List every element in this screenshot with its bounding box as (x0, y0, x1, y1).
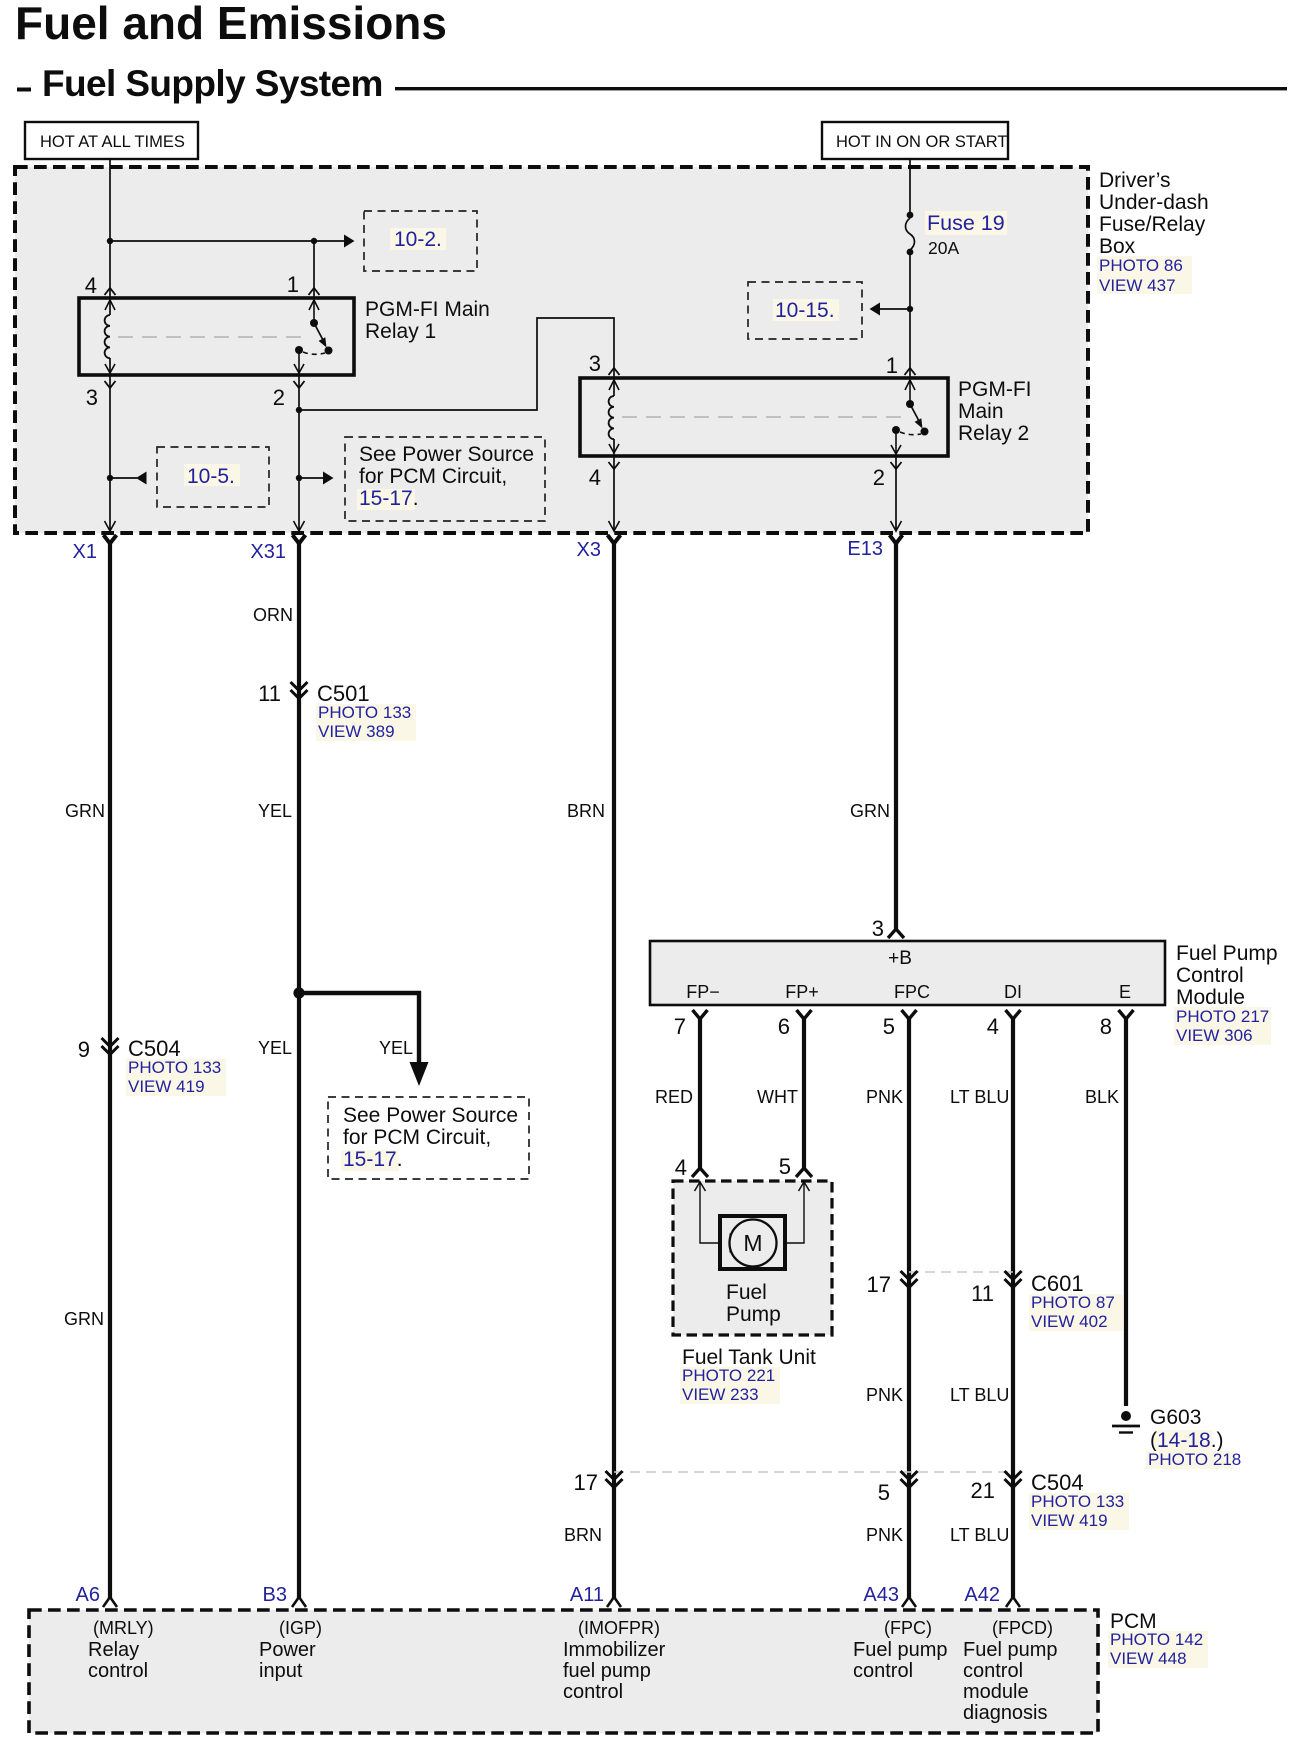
svg-text:E13: E13 (847, 538, 883, 560)
svg-text:X3: X3 (577, 539, 601, 561)
label: G603 (14-18.) PHOTO 218 (1146, 1406, 1241, 1469)
svg-text:(FPCD): (FPCD) (992, 1618, 1053, 1638)
svg-text:5: 5 (883, 1014, 895, 1039)
wire: FPC trunk (PNK) (907, 1018, 911, 1598)
svg-text:(14-18.): (14-18.) (1150, 1429, 1224, 1452)
svg-text:4: 4 (987, 1014, 999, 1039)
svg-text:4: 4 (675, 1155, 687, 1180)
wire color label BLK (1085, 1087, 1119, 1107)
wire: FP- to fuel pump pin 4 (RED) (698, 1018, 702, 1168)
pin 3 label (module +B) (872, 916, 884, 941)
reference box: See Power Source for PCM Circuit 15-17 (upper) (345, 437, 545, 521)
PCM dashed box (29, 1610, 1098, 1733)
wire color label WHT (757, 1087, 798, 1107)
coil: relay 2 coil (609, 396, 614, 439)
wire color label PNK (FPC lower) (866, 1525, 903, 1545)
svg-text:BRN: BRN (567, 801, 605, 821)
svg-text:GRN: GRN (64, 1309, 104, 1329)
svg-text:for PCM Circuit,: for PCM Circuit, (359, 465, 507, 488)
svg-text:5: 5 (878, 1480, 890, 1505)
svg-text:PNK: PNK (866, 1087, 903, 1107)
fuel pump pin 5 entry terminal (796, 1168, 812, 1177)
svg-text:A43: A43 (863, 1584, 899, 1606)
relay: PGM-FI Main Relay 2 box (580, 378, 948, 456)
pin 1 entry chevron (309, 288, 320, 295)
svg-text:VIEW 437: VIEW 437 (1099, 276, 1176, 295)
wire: hot-at-all-times feed (X1 column, inside fuse box) (109, 159, 111, 531)
svg-text:Fuse 19: Fuse 19 (927, 211, 1005, 235)
svg-text:3: 3 (872, 916, 884, 941)
svg-text:9: 9 (78, 1037, 90, 1062)
wire: relay1 pin 1 drop (313, 241, 315, 298)
pin 4 label (relay 2) (589, 465, 601, 490)
svg-text:control: control (563, 1681, 623, 1703)
svg-text:DI: DI (1004, 982, 1022, 1002)
label: +B (888, 948, 912, 969)
wire color label LT BLU (950, 1087, 1009, 1107)
svg-text:BLK: BLK (1085, 1087, 1119, 1107)
connector C504 pin 9 (78, 1036, 226, 1096)
wire: X31 branch with arrow into see-power box (299, 993, 429, 1086)
pin 3 label (relay 1) (86, 385, 98, 410)
svg-text:B3: B3 (263, 1584, 287, 1606)
PCM entry terminal A42 (1006, 1597, 1020, 1607)
connector C501 pin 11 (258, 681, 416, 741)
module pin name FP- (686, 982, 720, 1002)
svg-text:VIEW 419: VIEW 419 (1031, 1511, 1108, 1530)
connector C601 tie line (909, 1271, 1013, 1273)
PCM pin function (FPC) Fuel pump control (853, 1618, 948, 1682)
connector C601 pin 17 (867, 1271, 918, 1297)
PCM pin function (FPCD) Fuel pump control module diagnosis (963, 1618, 1058, 1724)
relay1 coil pin-3 exit arrow (inside box) (105, 364, 115, 373)
svg-text:11: 11 (258, 681, 281, 706)
svg-text:Relay 2: Relay 2 (958, 422, 1029, 445)
svg-text:Fuel pump: Fuel pump (853, 1639, 948, 1661)
node: junction at top of X1 feed (107, 238, 113, 244)
exit arrow X31 (294, 521, 305, 531)
pin 2 exit chevron below relay2 (891, 462, 902, 469)
module exit terminal pin 8 (1100, 1010, 1134, 1039)
svg-text:(IGP): (IGP) (279, 1618, 322, 1638)
wire: fuse 19 to relay 2 pin 1 (909, 252, 911, 378)
svg-text:FPC: FPC (894, 982, 930, 1002)
connector C504 pin 21 (DI) (971, 1471, 1022, 1503)
wire: FP+ to fuel pump pin 5 (WHT) (802, 1018, 806, 1168)
PCM entry terminal B3 (292, 1597, 306, 1607)
wire color label GRN (X1) (65, 801, 105, 821)
exit arrow E13 (891, 521, 902, 531)
label: Driver's Under-dash Fuse/Relay Box (1097, 169, 1209, 295)
svg-text:E: E (1119, 982, 1131, 1002)
label: PCM (1108, 1610, 1208, 1668)
svg-text:Under-dash: Under-dash (1099, 191, 1209, 214)
svg-text:15-17.: 15-17. (343, 1148, 403, 1171)
svg-text:GRN: GRN (65, 801, 105, 821)
wire color label BRN (X3) (567, 801, 605, 821)
label: C601 (1029, 1271, 1123, 1331)
svg-text:See Power Source: See Power Source (343, 1104, 518, 1127)
svg-text:PGM-FI: PGM-FI (958, 378, 1032, 401)
svg-text:fuel pump: fuel pump (563, 1660, 651, 1682)
label: Fuel Pump Control Module (1174, 942, 1278, 1045)
node: junction above relay1 pin 1 (311, 238, 317, 244)
svg-text:A42: A42 (964, 1584, 1000, 1606)
svg-text:GRN: GRN (850, 801, 890, 821)
wire: arrow to 10-5 reference (110, 472, 147, 485)
wire color label YEL (X31 lower) (258, 1038, 292, 1058)
node: X1 10-5 branch junction (107, 475, 113, 481)
svg-text:diagnosis: diagnosis (963, 1702, 1048, 1724)
svg-text:1: 1 (287, 272, 299, 297)
svg-text:7: 7 (674, 1014, 686, 1039)
svg-text:VIEW 448: VIEW 448 (1110, 1649, 1187, 1668)
svg-text:+B: +B (888, 948, 912, 969)
pin 3 exit chevron below relay1 (105, 381, 116, 388)
label: Fuel Pump (726, 1281, 781, 1326)
svg-text:Fuel Supply System: Fuel Supply System (42, 63, 383, 104)
svg-text:4: 4 (589, 465, 601, 490)
svg-text:control: control (88, 1660, 148, 1682)
wire: arrow to See Power Source box (299, 472, 334, 485)
svg-text:Box: Box (1099, 235, 1136, 258)
exit arrow X1 (105, 521, 116, 531)
fuel pump pin 5 inner arrow (799, 1182, 810, 1191)
label: PGM-FI Main Relay 2 (958, 378, 1032, 445)
connector E13 (fork terminal) (847, 535, 902, 560)
svg-text:6: 6 (778, 1014, 790, 1039)
svg-text:VIEW 419: VIEW 419 (128, 1077, 205, 1096)
svg-text:PNK: PNK (866, 1385, 903, 1405)
wire color label BRN (X3 lower) (564, 1525, 602, 1545)
svg-text:Immobilizer: Immobilizer (563, 1639, 666, 1661)
wire: E13 trunk (GRN) (894, 543, 898, 929)
wire: relay1 pin2 to relay2 pin3 (up and over) (299, 318, 614, 410)
svg-text:X1: X1 (73, 541, 97, 563)
svg-text:8: 8 (1100, 1014, 1112, 1039)
svg-text:YEL: YEL (258, 801, 292, 821)
wire: pump feed left (thin) (700, 1183, 720, 1243)
coil: relay 1 coil (105, 315, 110, 358)
PCM pin label B3 (263, 1584, 287, 1606)
svg-text:A6: A6 (76, 1584, 100, 1606)
relay1 coil pin-4 entry arrow (inside box) (105, 300, 115, 310)
ground G603 (1112, 1411, 1140, 1433)
svg-text:VIEW 402: VIEW 402 (1031, 1312, 1108, 1331)
connector C504 pin 5 (FPC) (878, 1471, 918, 1505)
reference box: See Power Source for PCM Circuit 15-17 (middle) (328, 1097, 529, 1179)
svg-text:BRN: BRN (564, 1525, 602, 1545)
motor: fuel pump motor (720, 1216, 785, 1269)
svg-text:VIEW 389: VIEW 389 (318, 722, 395, 741)
svg-text:4: 4 (85, 273, 97, 298)
svg-text:PHOTO 221: PHOTO 221 (682, 1366, 775, 1385)
svg-text:A11: A11 (570, 1584, 604, 1606)
pin 3 label (relay 2) (589, 351, 601, 376)
svg-text:RED: RED (655, 1087, 693, 1107)
wire color label GRN (X1 lower) (64, 1309, 104, 1329)
Fuel Tank Unit dashed box (673, 1181, 832, 1335)
module pin name DI (1004, 982, 1022, 1002)
relay2 coil pin-4 exit arrow (609, 444, 619, 453)
svg-text:Fuse/Relay: Fuse/Relay (1099, 213, 1206, 236)
node: 10-15 branch junction (907, 306, 913, 312)
svg-text:PHOTO 217: PHOTO 217 (1176, 1007, 1269, 1026)
module pin name FPC (894, 982, 930, 1002)
wire color label YEL (branch) (379, 1038, 413, 1058)
label: Fuel Tank Unit (680, 1346, 816, 1404)
svg-text:5: 5 (779, 1154, 791, 1179)
PCM pin label A11 (570, 1584, 604, 1606)
module exit terminal pin 4 (987, 1010, 1021, 1039)
reference box 10-5 (157, 447, 269, 507)
relay2 coil-to-switch dashed link (622, 416, 902, 418)
PCM pin function (IMOFPR) Immobilizer fuel pump control (563, 1618, 666, 1703)
pin 4 entry chevron (105, 288, 116, 295)
switch: relay 1 contact (294, 300, 333, 373)
wire: X31 trunk (ORN/YEL) (297, 543, 301, 1598)
wire: relay1 pin2 down to X31 exit (298, 373, 300, 531)
label: Fuse 19 20A (925, 211, 1007, 258)
connector X3 (fork terminal) (577, 535, 621, 561)
svg-text:Control: Control (1176, 964, 1244, 987)
wire color label PNK (866, 1087, 903, 1107)
svg-text:Fuel and Emissions: Fuel and Emissions (15, 0, 447, 49)
label: PGM-FI Main Relay 1 (365, 298, 490, 343)
svg-text:PHOTO 218: PHOTO 218 (1148, 1450, 1241, 1469)
svg-text:3: 3 (589, 351, 601, 376)
svg-text:for PCM Circuit,: for PCM Circuit, (343, 1126, 491, 1149)
wire: relay2 pin4 down to X3 exit (613, 378, 615, 531)
svg-text:YEL: YEL (379, 1038, 413, 1058)
wire: horizontal to relay 1 pin 1 (110, 240, 314, 242)
svg-text:LT BLU: LT BLU (950, 1525, 1009, 1545)
svg-text:PHOTO 133: PHOTO 133 (1031, 1492, 1124, 1511)
HOT AT ALL TIMES box (25, 122, 198, 159)
svg-text:module: module (963, 1681, 1029, 1703)
svg-text:2: 2 (873, 465, 885, 490)
relay: PGM-FI Main Relay 1 box (79, 298, 354, 375)
wire: arrow to 10-2 reference (314, 235, 355, 248)
svg-text:10-15.: 10-15. (775, 299, 835, 322)
title: Fuel and Emissions (15, 0, 447, 49)
svg-text:15-17.: 15-17. (359, 487, 419, 510)
node: X31 see-power branch junction (296, 475, 302, 481)
subtitle: Fuel Supply System (17, 63, 383, 104)
svg-text:Relay: Relay (88, 1639, 139, 1661)
svg-text:PHOTO 87: PHOTO 87 (1031, 1293, 1115, 1312)
module exit terminal pin 5 (883, 1010, 917, 1039)
PCM pin function (IGP) Power input (259, 1618, 322, 1682)
svg-text:G603: G603 (1150, 1406, 1201, 1429)
svg-text:3: 3 (86, 385, 98, 410)
svg-text:17: 17 (867, 1272, 891, 1297)
reference box 10-2 (364, 211, 477, 271)
svg-text:Pump: Pump (726, 1303, 781, 1326)
svg-text:FP−: FP− (686, 982, 720, 1002)
exit arrow X3 (609, 521, 620, 531)
relay1 coil-to-switch dashed link (118, 336, 306, 338)
wire: X3 trunk (BRN) (612, 543, 616, 1598)
pin 4 label (fuel tank unit) (675, 1155, 687, 1180)
PCM pin function (MRLY) Relay control (88, 1618, 154, 1682)
svg-text:ORN: ORN (253, 605, 293, 625)
svg-text:11: 11 (971, 1281, 994, 1306)
wire color label RED (655, 1087, 693, 1107)
wire color label ORN (253, 605, 293, 625)
wire color label LT BLU (below C601) (950, 1385, 1009, 1405)
pin 2 label (relay 2) (873, 465, 885, 490)
pin 4 exit chevron below relay2 (609, 462, 620, 469)
svg-text:21: 21 (971, 1478, 995, 1503)
svg-text:(MRLY): (MRLY) (93, 1618, 154, 1638)
svg-text:Relay 1: Relay 1 (365, 320, 436, 343)
pin 2 exit chevron below relay1 (294, 381, 305, 388)
switch: relay 2 contact (891, 380, 929, 454)
svg-text:Fuel pump: Fuel pump (963, 1639, 1058, 1661)
connector X31 (fork terminal) (250, 535, 305, 563)
svg-text:X31: X31 (250, 541, 286, 563)
module pin name E (1119, 982, 1131, 1002)
wire: E trunk to ground (BLK) (1124, 1018, 1128, 1406)
wire: hot-in-on-or-start feed down to fuse 19 (909, 159, 911, 216)
HOT IN ON OR START box (822, 122, 1008, 159)
wire color label YEL (X31) (258, 801, 292, 821)
connector C504 tie line (614, 1471, 1013, 1473)
header rule (395, 87, 1287, 90)
svg-text:LT BLU: LT BLU (950, 1385, 1009, 1405)
pin 5 label (fuel tank unit) (779, 1154, 791, 1179)
PCM pin label A6 (76, 1584, 100, 1606)
pin 4 label (relay 1) (85, 273, 97, 298)
svg-text:10-2.: 10-2. (394, 228, 442, 251)
pin 1 entry chevron (relay 2) (905, 368, 916, 375)
PCM pin label A42 (964, 1584, 1000, 1606)
fuel pump pin 4 entry terminal (692, 1168, 708, 1177)
connector C601 pin 11 (971, 1271, 1021, 1306)
wire color label PNK (below C601) (866, 1385, 903, 1405)
Fuel Pump Control Module box (650, 941, 1165, 1005)
svg-text:PHOTO 86: PHOTO 86 (1099, 256, 1183, 275)
svg-text:PHOTO 133: PHOTO 133 (128, 1058, 221, 1077)
node: X31 branch to PCM power (293, 987, 304, 998)
svg-text:(IMOFPR): (IMOFPR) (578, 1618, 660, 1638)
PCM entry terminal A6 (103, 1597, 117, 1607)
svg-text:M: M (743, 1230, 762, 1256)
svg-text:YEL: YEL (258, 1038, 292, 1058)
svg-text:20A: 20A (928, 238, 959, 258)
svg-text:VIEW 306: VIEW 306 (1176, 1026, 1253, 1045)
svg-text:HOT IN ON OR START: HOT IN ON OR START (836, 133, 1007, 151)
svg-text:2: 2 (273, 385, 285, 410)
pin 2 label (relay 1) (273, 385, 285, 410)
svg-text:PGM-FI Main: PGM-FI Main (365, 298, 490, 321)
pin 1 label (relay 1) (287, 272, 299, 297)
svg-text:HOT AT ALL TIMES: HOT AT ALL TIMES (40, 133, 185, 151)
svg-text:Driver’s: Driver’s (1099, 169, 1171, 192)
svg-text:17: 17 (574, 1470, 598, 1495)
wire: relay2 pin2 down to E13 exit (895, 454, 897, 531)
wire: pump feed right (thin) (785, 1183, 804, 1243)
svg-text:Fuel: Fuel (726, 1281, 767, 1304)
label: C504 (1029, 1470, 1129, 1530)
wire color label LT BLU (DI lower) (950, 1525, 1009, 1545)
svg-text:1: 1 (886, 353, 898, 378)
svg-text:control: control (853, 1660, 913, 1682)
svg-text:control: control (963, 1660, 1023, 1682)
reference box 10-15 (748, 282, 862, 339)
fuse F19 (906, 212, 915, 256)
PCM entry terminal A43 (902, 1597, 916, 1607)
svg-text:VIEW 233: VIEW 233 (682, 1385, 759, 1404)
svg-text:PHOTO 133: PHOTO 133 (318, 703, 411, 722)
svg-text:WHT: WHT (757, 1087, 798, 1107)
fuel pump pin 4 inner arrow (695, 1182, 706, 1191)
PCM entry terminal A11 (607, 1597, 621, 1607)
svg-text:Fuel Pump: Fuel Pump (1176, 942, 1278, 965)
svg-text:PHOTO 142: PHOTO 142 (1110, 1630, 1203, 1649)
PCM pin label A43 (863, 1584, 899, 1606)
svg-text:10-5.: 10-5. (187, 465, 235, 488)
wire color label GRN (E13) (850, 801, 890, 821)
module pin name FP+ (785, 982, 819, 1002)
module exit terminal pin 7 (674, 1010, 708, 1039)
svg-text:input: input (259, 1660, 303, 1682)
svg-text:Module: Module (1176, 986, 1245, 1009)
Driver's Under-dash Fuse/Relay Box (dashed enclosure) (15, 167, 1088, 533)
svg-text:PNK: PNK (866, 1525, 903, 1545)
pin 1 label (relay 2) (886, 353, 898, 378)
svg-text:Power: Power (259, 1639, 316, 1661)
module exit terminal pin 6 (778, 1010, 812, 1039)
pin 3 entry chevron (relay 2) (609, 368, 620, 375)
node: relay1 pin2 branch junction (296, 407, 302, 413)
svg-text:(FPC): (FPC) (884, 1618, 932, 1638)
connector X1 (fork terminal) (73, 535, 117, 563)
svg-text:FP+: FP+ (785, 982, 819, 1002)
wire: X1 trunk (GRN) (108, 543, 112, 1598)
connector C504 pin 17 (X3) (574, 1470, 623, 1495)
svg-text:See Power Source: See Power Source (359, 443, 534, 466)
pin 3 entry terminal at module (888, 929, 904, 938)
relay2 coil pin-3 entry arrow (609, 380, 619, 390)
svg-text:Main: Main (958, 400, 1004, 423)
wire: DI trunk (LT BLU) (1011, 1018, 1015, 1598)
wire: arrow to 10-15 reference (870, 303, 911, 316)
svg-text:LT BLU: LT BLU (950, 1087, 1009, 1107)
